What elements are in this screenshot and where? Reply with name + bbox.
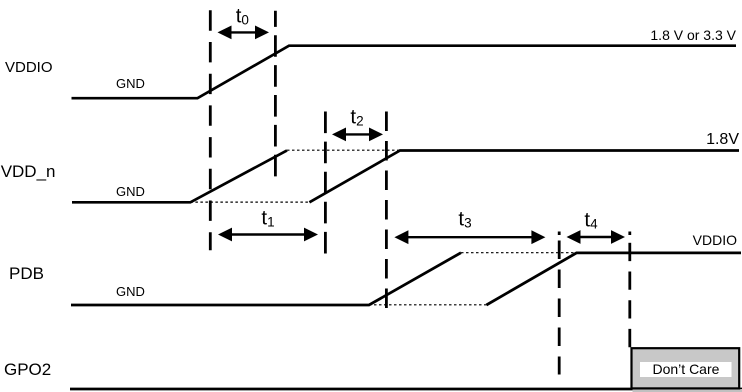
dashed timing marker line L4 [385, 112, 388, 312]
svg-text:PDB: PDB [9, 264, 44, 283]
VDD_n bottom dotted tolerance line [190, 201, 309, 203]
dashed timing marker line L1 [209, 10, 212, 250]
svg-text:VDDIO: VDDIO [693, 232, 737, 248]
don't-care shadow strip [633, 389, 742, 392]
PDB gnd segment and early ramp [71, 253, 461, 305]
PDB late ramp and high segment [486, 253, 741, 305]
timing arrow t3 [394, 230, 545, 244]
svg-text:GPO2: GPO2 [4, 360, 51, 379]
timing arrow t1 [218, 228, 318, 242]
dashed timing marker line L6 top dot [628, 232, 631, 236]
VDDIO waveform: gnd segment, ramp, high segment [72, 46, 737, 98]
timing arrow t4 [567, 230, 626, 244]
timing arrow t0 [218, 26, 270, 40]
svg-text:1.8 V or 3.3 V: 1.8 V or 3.3 V [650, 27, 736, 43]
svg-text:VDD_n: VDD_n [1, 162, 56, 181]
VDD_n top dotted tolerance line [287, 149, 400, 151]
dashed timing marker line L6 [628, 243, 631, 349]
dashed timing marker line L2 [274, 11, 277, 182]
svg-text:1.8V: 1.8V [706, 131, 739, 148]
svg-text:GND: GND [116, 284, 145, 299]
svg-text:VDDIO: VDDIO [5, 59, 53, 76]
PDB top dotted tolerance line [461, 252, 577, 254]
svg-text:Don’t Care: Don’t Care [653, 361, 720, 377]
dashed timing marker line L5 [558, 241, 561, 375]
dashed timing marker line L5 top dot [558, 232, 561, 236]
VDD_n late ramp and high segment [309, 151, 739, 203]
svg-text:GND: GND [116, 76, 145, 91]
dashed timing marker line L3 [324, 112, 327, 259]
GPO2 baseline wire [70, 388, 742, 391]
PDB bottom dotted tolerance line [369, 304, 486, 306]
don't-care region box [632, 348, 740, 388]
VDD_n gnd segment and early ramp [72, 150, 287, 202]
don't-care inner white label box [640, 362, 732, 377]
svg-text:GND: GND [116, 184, 145, 199]
timing arrow t2 [332, 128, 383, 142]
